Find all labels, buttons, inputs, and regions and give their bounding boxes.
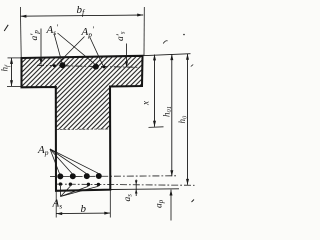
top prestressing bar A'_p dot 2 — [93, 64, 99, 70]
top bar A'_s small dot 2 — [103, 65, 106, 68]
A_p bar dot 2 — [70, 173, 76, 179]
dimension a'_s (top, inside flange right) — [126, 44, 128, 68]
stray scan tick top-left — [4, 25, 8, 31]
dimension h_0 — [187, 54, 189, 185]
stray scan mark top-right — [163, 41, 167, 44]
top rebar axis (chain line) — [37, 65, 140, 67]
A_s bar dot 3 — [87, 183, 90, 186]
T-beam cross-section outline — [22, 56, 143, 191]
top fibre extension line (right) — [143, 54, 191, 56]
dimension x (neutral axis depth) — [154, 55, 156, 127]
A_p bar dot 1 — [57, 173, 63, 179]
stray scan tick bottom-right — [192, 200, 195, 203]
dimension a'_p (top left) — [40, 29, 42, 65]
dimension b : extension lines — [55, 192, 57, 218]
bottom prestressing axis A_p (chain line) — [50, 175, 178, 178]
stray scan dot — [183, 34, 185, 36]
A_p bar dot 4 — [96, 173, 102, 179]
leader A_p to bottom bars — [50, 149, 60, 174]
top bar A'_s small dot 1 — [53, 64, 56, 67]
A_s bar dot 1 — [59, 182, 62, 185]
A_s bar dot 2 — [69, 183, 72, 186]
svg-text:Ap′: Ap′ — [81, 24, 94, 39]
leader A'_p to top bars — [57, 37, 85, 65]
dimension b_f : extension lines — [19, 7, 22, 58]
neutral axis hatch boundary — [56, 128, 110, 131]
leader A_s to bottom small bars — [59, 186, 61, 197]
dimension h_01 — [171, 54, 173, 176]
dimension b_f : dimension line — [20, 15, 143, 16]
concrete hatching (compression zone) — [15, 50, 150, 130]
dimension b : dimension line — [56, 212, 110, 215]
bottom fibre extension line (right) — [110, 188, 179, 191]
stray scan tick mid-right — [191, 65, 193, 67]
top prestressing bar A'_p dot 1 — [60, 62, 66, 68]
A_p bar dot 3 — [84, 173, 90, 179]
svg-text:b: b — [81, 203, 87, 215]
svg-text:x: x — [140, 101, 150, 106]
bottom bar axis A_s (chain line) — [56, 184, 195, 185]
A_s bar dot 4 — [97, 183, 100, 186]
dimension a_p (bottom right) — [170, 190, 172, 221]
dimension h_f (flange depth, left) — [8, 57, 23, 59]
dimension a_s (bottom right) — [135, 180, 137, 197]
leader A'_s to top bars — [54, 34, 62, 63]
